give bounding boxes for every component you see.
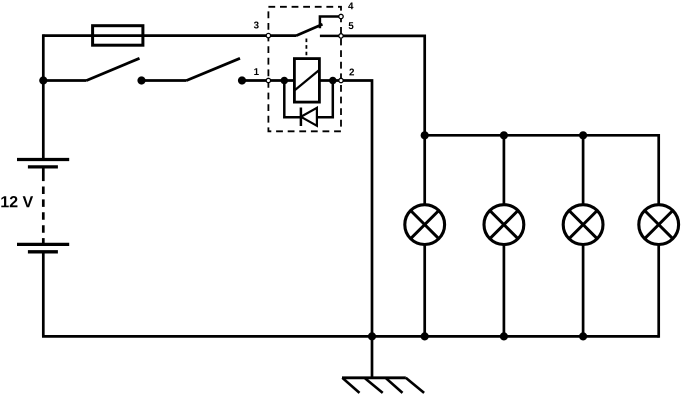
- wire coil to pin2: [319, 79, 341, 82]
- relay pin terminal 4: [339, 14, 343, 18]
- wire between switch S1 and S2: [142, 79, 187, 82]
- wire left vertical from top corner to battery: [42, 34, 45, 159]
- relay NC stub to pin 5: [320, 35, 341, 38]
- relay pin terminal 5: [339, 34, 343, 38]
- pin label 4: [348, 2, 353, 9]
- wire battery dashed middle link: [42, 187, 45, 233]
- wire lamp column 2: [503, 135, 506, 336]
- wire lamp top bus: [425, 134, 659, 137]
- junction at battery/switch branch: [39, 76, 47, 84]
- wire lamp column 3: [582, 135, 585, 336]
- junction bottom bus lamp2: [500, 332, 508, 340]
- wire relay common from pin 3: [268, 34, 296, 37]
- junction diode left: [281, 77, 289, 85]
- wire from S2 to relay pin 1: [242, 79, 268, 82]
- wire battery stub below top cell: [42, 167, 45, 181]
- pin label 1: [254, 68, 259, 75]
- wire bottom bus: [42, 335, 659, 338]
- junction diode right: [329, 77, 337, 85]
- wire left vertical from battery to bottom bus: [42, 252, 45, 337]
- junction top bus lamp2: [500, 131, 508, 139]
- relay pin terminal 2: [339, 78, 343, 82]
- wire switch branch lead: [43, 79, 86, 82]
- junction bottom bus lamp1: [421, 332, 429, 340]
- wire pin 2 to ground bus: [341, 81, 372, 337]
- junction bottom bus lamp3: [579, 332, 587, 340]
- lamp E4: [639, 205, 679, 245]
- wire lamp column 4: [657, 134, 660, 338]
- pin label 2: [349, 69, 354, 76]
- junction top bus lamp3: [579, 131, 587, 139]
- wire pin1 to coil: [268, 79, 294, 82]
- relay K1 dashed enclosure: [268, 7, 341, 132]
- junction top bus lamp1: [421, 131, 429, 139]
- switch S1: [87, 58, 146, 84]
- fuse F1: [93, 26, 143, 46]
- ground (chassis earth): [342, 336, 424, 393]
- battery G1 12V: [17, 160, 69, 252]
- lamp E1: [405, 205, 445, 245]
- wire top from battery to relay pin 3: [43, 34, 268, 37]
- wire battery stub above bottom cell: [42, 238, 45, 244]
- relay coil: [294, 59, 319, 103]
- switch S2: [187, 58, 247, 84]
- lamp E2: [484, 205, 524, 245]
- relay mechanical link (dashed): [305, 39, 307, 59]
- wire lamp column 1 lower: [423, 245, 426, 336]
- relay NO contact step to pin 4: [320, 17, 341, 29]
- pin label 5: [349, 22, 354, 29]
- relay changeover contact arm: [296, 24, 323, 35]
- label 12 V: [1, 196, 33, 207]
- lamp E3: [563, 205, 603, 245]
- relay pin terminal 3: [266, 33, 270, 37]
- pin label 3: [254, 22, 259, 29]
- relay pin terminal 1: [266, 78, 270, 82]
- wire pin 5 to lamp bus: [341, 36, 425, 205]
- junction bottom bus ground: [368, 332, 376, 340]
- diode D1 (flyback across coil): [284, 81, 333, 127]
